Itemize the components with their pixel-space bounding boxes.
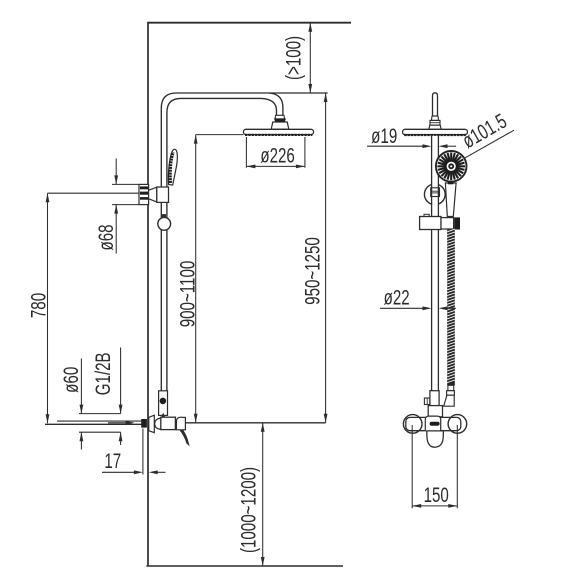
escutcheon right bbox=[448, 415, 467, 434]
svg-text:G1/2B: G1/2B bbox=[90, 352, 114, 395]
dim17 left arrow bbox=[102, 471, 134, 473]
dim780 ext bbox=[48, 192, 140, 194]
head cone fitting bbox=[275, 115, 285, 119]
holder cup bbox=[441, 218, 454, 229]
svg-text:900~1100: 900~1100 bbox=[175, 261, 199, 328]
valve ball joint bbox=[155, 418, 163, 429]
diverter stem bbox=[161, 413, 165, 417]
head flange bbox=[271, 122, 289, 129]
dim60 arrow bottom bbox=[80, 432, 82, 449]
mixer center body bbox=[428, 406, 442, 417]
slider block bbox=[420, 217, 441, 230]
escutcheon left bbox=[403, 415, 422, 434]
slider bump bbox=[424, 214, 429, 216]
dim780 line bbox=[47, 193, 49, 423]
riser pipe + gooseneck arm inner bbox=[167, 98, 262, 390]
diverter housing bbox=[159, 391, 168, 416]
diverter knob bbox=[160, 398, 167, 405]
bracket knob bbox=[139, 184, 149, 204]
G12B leader bottom bbox=[120, 432, 122, 445]
G12B leader top bbox=[120, 348, 122, 414]
dim900-1100 arrows bbox=[194, 135, 198, 423]
svg-text:ø68: ø68 bbox=[93, 224, 117, 250]
svg-text:ø226: ø226 bbox=[260, 143, 294, 167]
dim-gt100 line bbox=[309, 23, 311, 93]
valve handle base bbox=[176, 417, 185, 430]
dim226 ext left bbox=[245, 137, 247, 168]
wall bbox=[147, 23, 149, 566]
dim900-1100 ext bbox=[196, 134, 244, 136]
riser rod front bbox=[432, 136, 439, 391]
slider dark patch bbox=[161, 214, 166, 218]
RIGHT-FIGURE bbox=[367, 93, 514, 509]
handshower body bbox=[168, 149, 177, 185]
dim68 arrow top bbox=[115, 159, 117, 185]
valve body side bbox=[161, 417, 176, 429]
TEXT-LABELS bbox=[26, 36, 511, 553]
dim226 ext right bbox=[304, 137, 306, 168]
hose end sleeve bbox=[448, 385, 454, 390]
dim780 arrows bbox=[46, 193, 50, 423]
svg-text:780: 780 bbox=[26, 293, 50, 318]
arm right bend inner bbox=[262, 98, 277, 115]
dim900-1100 line bbox=[195, 135, 197, 423]
supply pipe bottom line bbox=[45, 423, 142, 425]
dim101 leader bbox=[464, 130, 514, 159]
hose connector bbox=[444, 395, 455, 406]
valve top body bbox=[430, 391, 439, 408]
dim68 arrow bottom bbox=[115, 205, 117, 254]
dim150 ext left bbox=[411, 425, 413, 508]
dark slot bbox=[430, 422, 440, 426]
dim226 line bbox=[246, 165, 305, 167]
dim68 ext top bbox=[112, 183, 139, 185]
dim19 right bbox=[448, 145, 457, 147]
dim68 ext bottom bbox=[112, 204, 139, 206]
stub flange bbox=[429, 125, 441, 129]
hose bbox=[447, 230, 455, 386]
dim150 line bbox=[412, 505, 457, 507]
ceiling bbox=[147, 22, 351, 24]
svg-text:(>100): (>100) bbox=[281, 36, 305, 80]
svg-text:150: 150 bbox=[424, 482, 449, 506]
datum wire right bbox=[186, 422, 326, 424]
bracket cone bbox=[149, 187, 157, 202]
G12B thread arrow bbox=[108, 422, 126, 424]
dim17 right arrow bbox=[157, 471, 165, 473]
mixer handle front bbox=[427, 431, 444, 447]
disc dark face front bbox=[404, 134, 466, 136]
dim1000-1200 line bbox=[262, 423, 264, 566]
top stub pipe bbox=[433, 93, 438, 116]
overhead disc front bbox=[403, 129, 468, 134]
svg-text:17: 17 bbox=[104, 448, 121, 472]
dim226 arrows bbox=[246, 165, 305, 169]
diverter nub bbox=[424, 398, 430, 405]
head nut dark bbox=[274, 118, 286, 122]
svg-text:ø101.5: ø101.5 bbox=[458, 108, 511, 152]
dim60 arrow top bbox=[80, 359, 82, 414]
mixer bar bbox=[406, 417, 461, 430]
valve wall cone bbox=[149, 415, 155, 433]
dim60 ext line B bbox=[79, 431, 121, 433]
dim22 left bbox=[380, 307, 423, 309]
handshower dark face bbox=[170, 152, 173, 183]
supply pipe top line bbox=[57, 420, 142, 422]
dim17 ext bbox=[142, 429, 144, 475]
svg-text:950~1250: 950~1250 bbox=[300, 237, 324, 305]
holder clip dark bbox=[454, 217, 460, 229]
slider ball bbox=[158, 217, 171, 230]
dim60 ext line A bbox=[79, 413, 121, 415]
stub cone bbox=[431, 116, 438, 120]
arm right bend outer bbox=[269, 93, 283, 115]
shower disc dark face bbox=[245, 134, 312, 136]
svg-text:ø60: ø60 bbox=[58, 367, 82, 393]
dim950-1250 arrows bbox=[324, 93, 328, 423]
hose nut bbox=[447, 391, 455, 396]
valve lever bbox=[179, 430, 189, 447]
wall flange dark square bbox=[141, 419, 147, 428]
dim22 right bbox=[448, 307, 457, 309]
dim150 arrows bbox=[412, 504, 457, 508]
stub nut bbox=[430, 120, 440, 125]
svg-text:ø19: ø19 bbox=[371, 123, 397, 147]
svg-text:(1000~1200): (1000~1200) bbox=[236, 467, 260, 553]
handshower face front bbox=[436, 151, 467, 182]
rod clamp bbox=[431, 188, 440, 197]
svg-text:ø22: ø22 bbox=[384, 285, 410, 309]
riser pipe + gooseneck arm outer bbox=[161, 93, 327, 391]
cartridge dome bbox=[425, 416, 440, 431]
dim950-1250 line bbox=[325, 93, 327, 423]
dim150 ext right bbox=[456, 425, 458, 508]
dim19 left bbox=[367, 145, 423, 147]
dim-gt100 arrows bbox=[308, 23, 312, 93]
bracket ring front bbox=[424, 184, 445, 205]
overhead shower disc bbox=[243, 129, 313, 134]
dim1000-1200 arrows bbox=[261, 423, 265, 566]
floor bbox=[146, 565, 343, 567]
bracket cup bbox=[157, 187, 169, 202]
handshower handle front bbox=[445, 183, 456, 217]
